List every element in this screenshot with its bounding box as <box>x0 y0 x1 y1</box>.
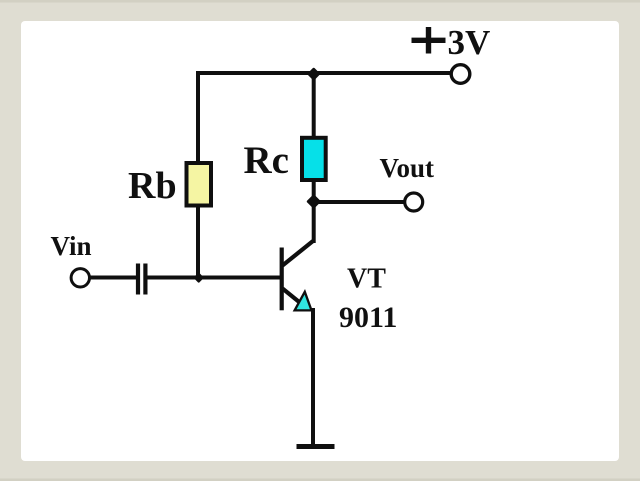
resistor Rc <box>302 138 326 180</box>
junction dot collector node <box>306 194 321 209</box>
svg-text:3V: 3V <box>448 23 491 62</box>
wire emitter down to ground <box>311 308 315 445</box>
svg-text:9011: 9011 <box>339 301 397 334</box>
wire collector node to Vout terminal <box>314 200 405 204</box>
transistor emitter diagonal <box>283 289 302 304</box>
terminal Vout circle <box>405 193 423 211</box>
wire collector vertical <box>312 202 316 243</box>
wire top rail from Rb top corner to +3V terminal <box>198 71 452 75</box>
terminal +3V circle <box>451 65 470 84</box>
wire from Rb down to base node <box>196 207 200 278</box>
resistor Rb <box>187 163 212 206</box>
svg-text:VT: VT <box>347 264 386 295</box>
label +3V <box>412 23 491 62</box>
transistor collector diagonal <box>283 241 314 266</box>
svg-text:Rb: Rb <box>128 165 177 207</box>
wire Vin terminal to capacitor <box>90 276 137 280</box>
wire capacitor to base node <box>148 276 282 280</box>
svg-text:Rc: Rc <box>244 139 289 182</box>
terminal Vin circle <box>71 269 89 287</box>
wire from Rc down to collector node <box>312 180 316 202</box>
transistor VT base bar <box>280 248 284 311</box>
junction dot base node <box>193 272 204 283</box>
junction dot node top (rail/Rc) <box>307 67 321 81</box>
wire from top rail down to Rb <box>196 71 200 161</box>
capacitor C1 right plate <box>143 264 147 295</box>
capacitor C1 left plate <box>136 264 140 295</box>
ground <box>297 444 335 449</box>
svg-text:Vout: Vout <box>380 153 435 183</box>
svg-text:Vin: Vin <box>51 231 92 261</box>
wire from top junction down to Rc <box>312 74 316 136</box>
transistor emitter arrow (cyan) <box>295 292 312 311</box>
